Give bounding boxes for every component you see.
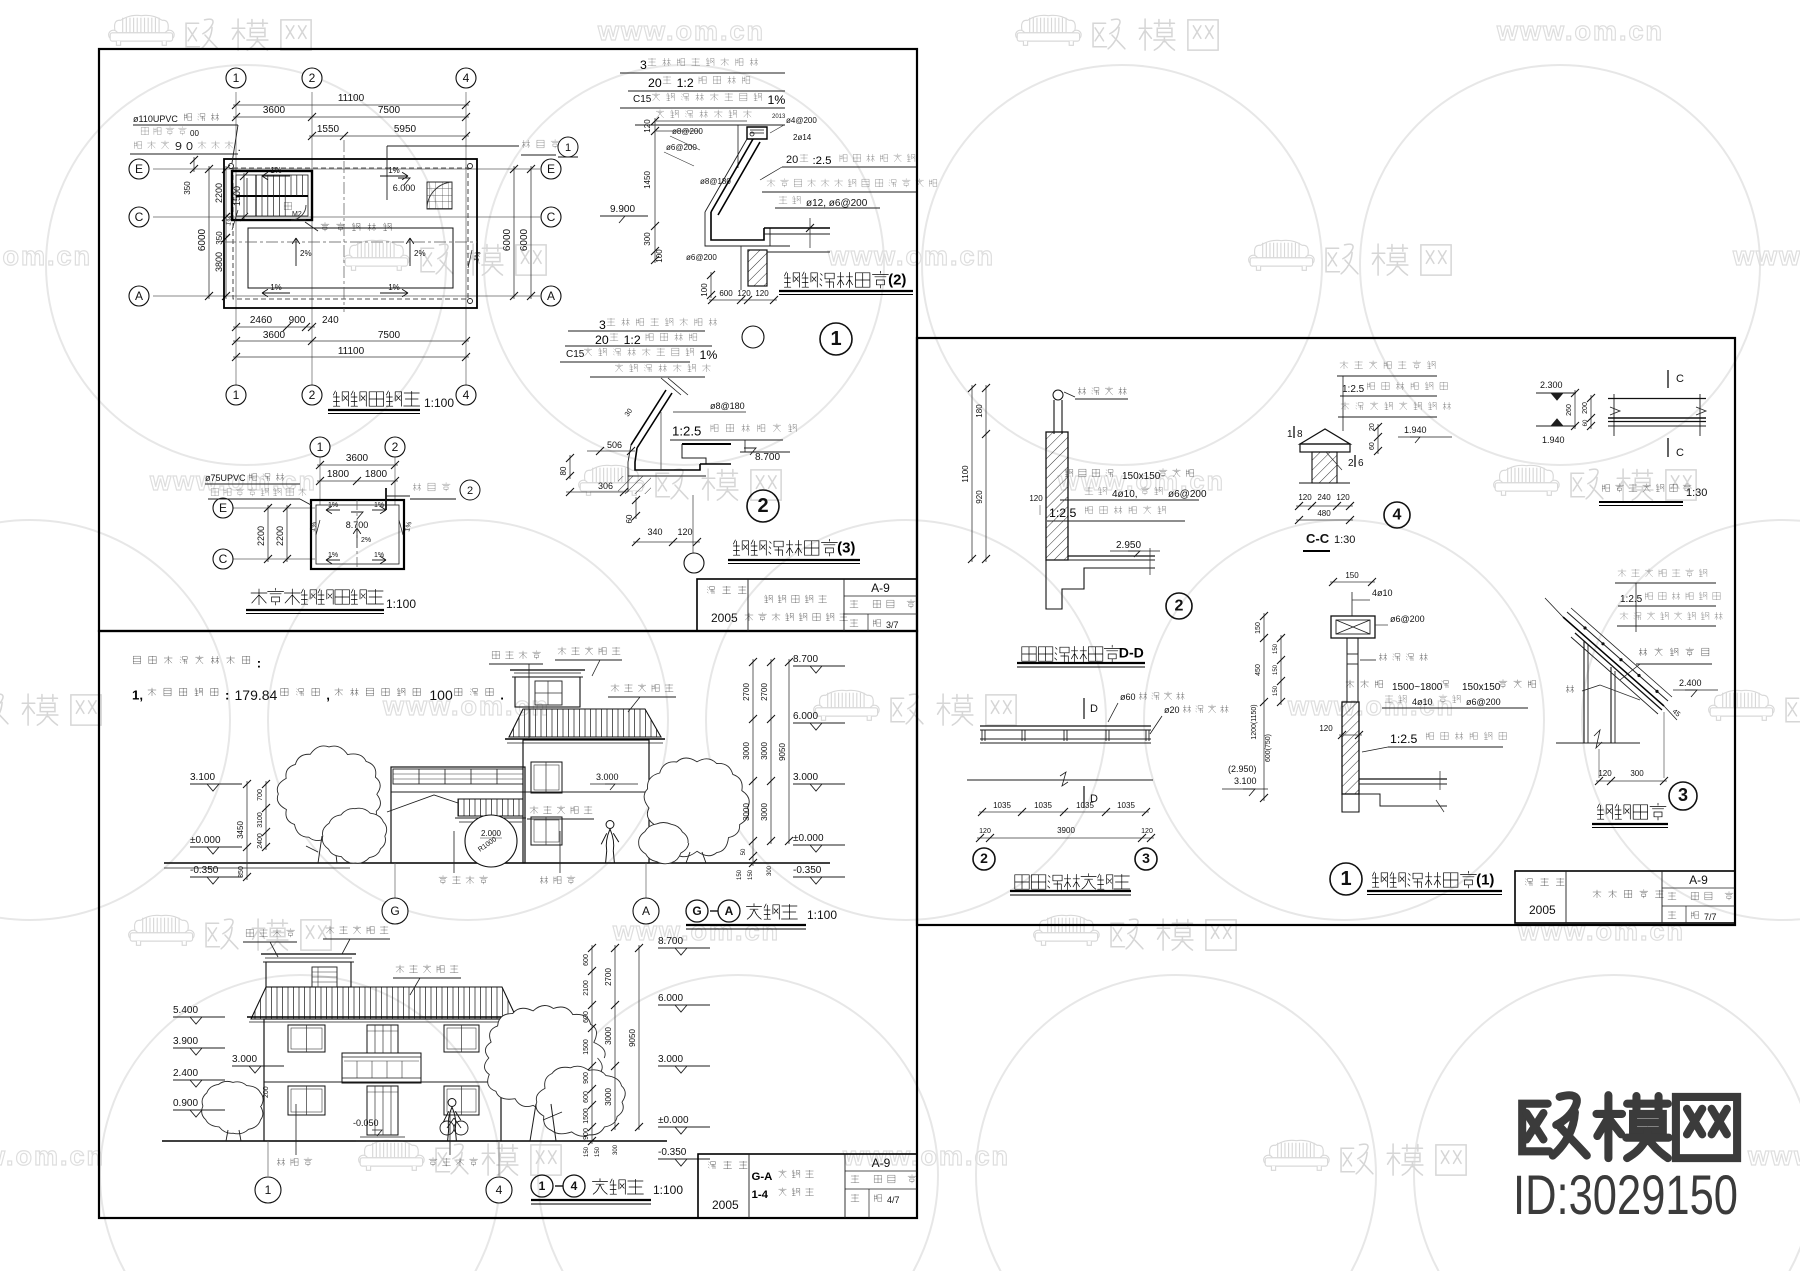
svg-text:100: 100 xyxy=(429,687,453,703)
svg-text:120: 120 xyxy=(1319,724,1333,733)
title 楼梯间屋面平面图 xyxy=(251,588,384,605)
svg-text:1%: 1% xyxy=(700,348,718,362)
svg-text:1: 1 xyxy=(1340,868,1351,890)
svg-text:ø6@200: ø6@200 xyxy=(1390,614,1425,624)
svg-text:E: E xyxy=(547,162,555,176)
svg-text:150: 150 xyxy=(1273,643,1279,654)
title 1-4 立面图 xyxy=(531,1175,553,1197)
svg-text:2ø14: 2ø14 xyxy=(793,133,812,142)
svg-text:.: . xyxy=(500,688,504,703)
svg-text:1%: 1% xyxy=(270,166,282,175)
svg-text:2460: 2460 xyxy=(250,315,273,326)
svg-text:www.om.cn: www.om.cn xyxy=(827,241,995,271)
svg-text:2013: 2013 xyxy=(772,114,786,120)
svg-text:300: 300 xyxy=(613,1144,619,1155)
svg-text:C15: C15 xyxy=(633,94,652,105)
svg-text:8.700: 8.700 xyxy=(658,936,683,947)
svg-text:A: A xyxy=(642,904,650,918)
svg-text:9050: 9050 xyxy=(778,743,787,761)
svg-text:120: 120 xyxy=(979,828,991,835)
svg-text:2%: 2% xyxy=(361,537,371,544)
svg-text:1: 1 xyxy=(830,328,841,350)
svg-text:4/7: 4/7 xyxy=(887,1195,900,1205)
svg-text:120: 120 xyxy=(1298,493,1312,502)
svg-text:2: 2 xyxy=(1348,458,1354,469)
svg-text:6.000: 6.000 xyxy=(658,993,683,1004)
svg-text:2005: 2005 xyxy=(711,611,738,625)
svg-text:5950: 5950 xyxy=(394,124,417,135)
svg-text:ID:3029150: ID:3029150 xyxy=(1513,1163,1738,1226)
svg-text:3: 3 xyxy=(1142,850,1150,866)
svg-text:1:100: 1:100 xyxy=(653,1183,683,1197)
svg-text:1:2.5: 1:2.5 xyxy=(672,424,701,439)
svg-text:6000: 6000 xyxy=(502,228,513,251)
svg-text:G: G xyxy=(692,904,701,918)
svg-text:1450: 1450 xyxy=(643,171,652,189)
svg-text:1:2: 1:2 xyxy=(677,76,694,90)
svg-text:ø8@180: ø8@180 xyxy=(710,401,745,411)
svg-text:2: 2 xyxy=(467,485,473,497)
svg-text:2.400: 2.400 xyxy=(1679,678,1702,688)
svg-text:3600: 3600 xyxy=(263,105,286,116)
title G-A 立面图 xyxy=(686,900,708,922)
svg-text:200: 200 xyxy=(1582,402,1589,414)
svg-text:700: 700 xyxy=(257,789,264,801)
svg-text:340: 340 xyxy=(647,527,662,537)
svg-text:www.om.cn: www.om.cn xyxy=(842,1141,1010,1171)
svg-text:350: 350 xyxy=(238,866,245,878)
svg-text:1800: 1800 xyxy=(365,469,388,480)
svg-text:1: 1 xyxy=(317,440,324,454)
svg-text:A-9: A-9 xyxy=(872,1156,891,1170)
svg-text:1035: 1035 xyxy=(1034,801,1052,810)
svg-text:2400: 2400 xyxy=(257,833,264,849)
svg-text:2%: 2% xyxy=(300,249,312,258)
svg-text:6000: 6000 xyxy=(519,228,530,251)
svg-text:4ø10,: 4ø10, xyxy=(1112,489,1138,500)
svg-text:.: . xyxy=(238,142,241,154)
title 阳台栏板大样D-D xyxy=(1022,644,1144,662)
svg-text:±0.000: ±0.000 xyxy=(793,833,824,844)
svg-text:www.om.cn: www.om.cn xyxy=(597,16,765,46)
svg-text:3000: 3000 xyxy=(604,1088,613,1106)
svg-text:2: 2 xyxy=(392,440,399,454)
svg-text:９０: ９０ xyxy=(173,141,195,153)
svg-text:2200: 2200 xyxy=(214,183,224,203)
svg-text:20: 20 xyxy=(595,333,609,347)
svg-text:9.900: 9.900 xyxy=(610,204,635,215)
svg-text:1:2.5: 1:2.5 xyxy=(1620,594,1643,605)
svg-text:6: 6 xyxy=(1358,458,1364,469)
svg-text:ø60: ø60 xyxy=(1120,692,1136,702)
svg-text:3600: 3600 xyxy=(263,330,286,341)
svg-text:A-9: A-9 xyxy=(1689,873,1708,887)
svg-text:4ø10: 4ø10 xyxy=(1372,588,1393,598)
svg-text:D-D: D-D xyxy=(1119,644,1144,660)
svg-text:3000: 3000 xyxy=(604,1027,613,1045)
detail 屋面栏板大样(2) xyxy=(640,58,758,72)
svg-text:ø20: ø20 xyxy=(1164,705,1180,715)
svg-text:1:100: 1:100 xyxy=(386,597,416,611)
svg-text:ø6@200: ø6@200 xyxy=(1466,697,1501,707)
svg-text:350: 350 xyxy=(215,231,224,245)
svg-text:120: 120 xyxy=(677,527,692,537)
detail 屋檐大样 xyxy=(1618,569,1707,577)
svg-text:3.000: 3.000 xyxy=(793,772,818,783)
svg-text:(1): (1) xyxy=(1476,871,1494,888)
svg-text:-0.350: -0.350 xyxy=(190,865,219,876)
svg-text:4: 4 xyxy=(463,388,470,402)
svg-text:1%: 1% xyxy=(374,552,384,559)
svg-text:480: 480 xyxy=(1317,509,1331,518)
svg-text:120: 120 xyxy=(737,289,751,298)
title block panel 1 xyxy=(697,579,917,631)
svg-text:6000: 6000 xyxy=(197,228,208,251)
svg-text:7/7: 7/7 xyxy=(1704,912,1717,922)
svg-text:260: 260 xyxy=(1566,404,1573,416)
svg-text:6.000: 6.000 xyxy=(393,183,416,193)
label 砖砌门槛高 xyxy=(305,222,318,231)
svg-text:5.400: 5.400 xyxy=(173,1005,198,1016)
svg-text:3900: 3900 xyxy=(1057,826,1075,835)
svg-text:1%: 1% xyxy=(374,502,384,509)
svg-text:3: 3 xyxy=(599,318,606,332)
svg-text:G-A: G-A xyxy=(752,1171,773,1183)
svg-text:8: 8 xyxy=(1297,429,1303,440)
svg-text:3000: 3000 xyxy=(760,803,769,821)
svg-text:300: 300 xyxy=(1630,769,1644,778)
svg-text:A-9: A-9 xyxy=(871,581,890,595)
svg-text:(2): (2) xyxy=(888,271,906,288)
svg-text:3: 3 xyxy=(1678,785,1688,805)
svg-text:150: 150 xyxy=(1273,685,1279,696)
svg-text:1: 1 xyxy=(265,1183,272,1197)
svg-text:150x150: 150x150 xyxy=(1122,471,1161,482)
svg-text::: : xyxy=(225,688,229,703)
svg-text:4ø10: 4ø10 xyxy=(1412,697,1433,707)
svg-text:2: 2 xyxy=(309,71,316,85)
svg-text:2700: 2700 xyxy=(742,683,751,701)
svg-text:506: 506 xyxy=(607,440,622,450)
svg-text:9050: 9050 xyxy=(628,1029,637,1047)
svg-text:www.om.cn: www.om.cn xyxy=(1517,916,1685,946)
svg-text:3800: 3800 xyxy=(214,252,224,272)
svg-text:3000: 3000 xyxy=(760,742,769,760)
svg-text:4: 4 xyxy=(571,1179,578,1193)
svg-text:150x150: 150x150 xyxy=(1462,682,1501,693)
svg-text:120: 120 xyxy=(643,119,652,133)
svg-text::2.5: :2.5 xyxy=(813,155,832,167)
economic index text xyxy=(134,656,262,671)
svg-text:3.000: 3.000 xyxy=(658,1054,683,1065)
svg-text:www.om.cn: www.om.cn xyxy=(1732,241,1800,271)
svg-text:E: E xyxy=(219,501,227,515)
svg-text:A: A xyxy=(725,904,734,918)
svg-text:3100: 3100 xyxy=(257,812,264,828)
svg-text:3.000: 3.000 xyxy=(596,772,619,782)
svg-text:3.100: 3.100 xyxy=(1234,776,1257,786)
svg-text:240: 240 xyxy=(1317,493,1331,502)
svg-text:3600: 3600 xyxy=(346,453,369,464)
stair roof plan 楼梯间屋面平面图 xyxy=(319,457,321,505)
svg-text:1%: 1% xyxy=(328,552,338,559)
svg-text:www.om.cn: www.om.cn xyxy=(1496,16,1664,46)
svg-text:C15: C15 xyxy=(566,349,585,360)
svg-text:4: 4 xyxy=(1393,507,1402,524)
svg-text:-0.050: -0.050 xyxy=(353,1118,379,1128)
svg-text:1:100: 1:100 xyxy=(807,908,837,922)
svg-text:3000: 3000 xyxy=(742,803,751,821)
detail 阳台栏板大样D-D xyxy=(1053,390,1063,400)
finish labels elevation 1-4 xyxy=(246,929,294,937)
svg-text:3000: 3000 xyxy=(742,742,751,760)
svg-text:C: C xyxy=(1676,373,1684,385)
svg-text:150: 150 xyxy=(584,1146,590,1157)
svg-text:1035: 1035 xyxy=(993,801,1011,810)
svg-text:C: C xyxy=(135,210,144,224)
svg-text:2200: 2200 xyxy=(275,526,285,546)
svg-text:3.100: 3.100 xyxy=(190,772,215,783)
svg-text:600: 600 xyxy=(583,954,590,966)
svg-text:6.000: 6.000 xyxy=(793,711,818,722)
svg-text:C: C xyxy=(1676,447,1684,459)
svg-text:ø8@200: ø8@200 xyxy=(672,127,703,136)
svg-text:2: 2 xyxy=(757,495,768,517)
svg-text:8.700: 8.700 xyxy=(793,654,818,665)
svg-text:450: 450 xyxy=(1255,664,1262,676)
svg-text:3/7: 3/7 xyxy=(886,620,899,630)
elevation 1-4 立面图 xyxy=(162,1140,667,1142)
svg-text:,: , xyxy=(326,688,330,703)
svg-text:C: C xyxy=(547,210,556,224)
svg-text:1%: 1% xyxy=(270,283,282,292)
svg-text:1%: 1% xyxy=(328,502,338,509)
svg-text:ø8@180: ø8@180 xyxy=(700,177,731,186)
svg-text:1:2: 1:2 xyxy=(624,333,641,347)
panel 1 border (roof plans + parapet details) xyxy=(99,49,917,631)
svg-text:±0.000: ±0.000 xyxy=(190,835,221,846)
elevation G-A 立面图 xyxy=(164,862,830,864)
svg-text:2005: 2005 xyxy=(1529,903,1556,917)
svg-text:600: 600 xyxy=(719,289,733,298)
svg-text:120: 120 xyxy=(1141,828,1153,835)
svg-text:ø6@200: ø6@200 xyxy=(1168,489,1207,500)
svg-text:8.700: 8.700 xyxy=(755,452,780,463)
svg-text:M2: M2 xyxy=(292,211,302,218)
svg-text:600: 600 xyxy=(583,1091,590,1103)
svg-text:2100: 2100 xyxy=(583,980,590,996)
svg-text:2%: 2% xyxy=(414,249,426,258)
svg-text:1%: 1% xyxy=(388,283,400,292)
svg-text:240: 240 xyxy=(322,315,339,326)
svg-text:900: 900 xyxy=(289,315,306,326)
svg-text:120: 120 xyxy=(1336,493,1350,502)
svg-text:120: 120 xyxy=(1598,769,1612,778)
svg-text:900: 900 xyxy=(583,1128,590,1140)
svg-text:7500: 7500 xyxy=(378,330,401,341)
svg-text:100: 100 xyxy=(655,249,664,263)
svg-text:1:2.5: 1:2.5 xyxy=(1390,732,1418,746)
svg-text:150: 150 xyxy=(1255,622,1262,634)
title 屋檐大样 xyxy=(1597,803,1666,820)
watermark tiles xyxy=(109,15,175,45)
svg-text:900: 900 xyxy=(583,1072,590,1084)
panel 2 border (elevations) xyxy=(99,631,917,1218)
svg-text:3.900: 3.900 xyxy=(173,1036,198,1047)
trees elevation 1-4 xyxy=(202,1081,263,1133)
svg-text:1550: 1550 xyxy=(317,124,340,135)
svg-text:(3): (3) xyxy=(837,539,855,556)
svg-text:60: 60 xyxy=(1583,419,1589,426)
svg-text:1500: 1500 xyxy=(583,1108,590,1124)
svg-text:C-C: C-C xyxy=(1306,531,1330,546)
svg-text:00: 00 xyxy=(190,129,199,138)
svg-text:4: 4 xyxy=(496,1183,503,1197)
svg-text:A: A xyxy=(547,289,555,303)
svg-text:150: 150 xyxy=(595,1146,601,1157)
svg-text:2.300: 2.300 xyxy=(1540,380,1563,390)
svg-text:ø6@200: ø6@200 xyxy=(666,143,697,152)
svg-text:www.om.cn: www.om.cn xyxy=(1747,1141,1800,1171)
title 屋面栏板大样(3) xyxy=(733,539,855,556)
svg-text:-0.350: -0.350 xyxy=(658,1147,687,1158)
title 装饰墙立面大样 xyxy=(1602,484,1691,492)
svg-text:1:100: 1:100 xyxy=(424,396,454,410)
svg-text::: : xyxy=(257,656,261,671)
panel 3 border (node details) xyxy=(917,338,1735,925)
svg-text:1500~1800: 1500~1800 xyxy=(1392,682,1443,693)
svg-text:1: 1 xyxy=(233,71,240,85)
svg-text:A: A xyxy=(135,289,143,303)
svg-text:2: 2 xyxy=(980,850,988,866)
svg-text:4: 4 xyxy=(463,71,470,85)
svg-text:G: G xyxy=(390,904,399,918)
svg-text:www.om.cn: www.om.cn xyxy=(0,1141,105,1171)
detail C-C xyxy=(1340,361,1435,369)
svg-text:-0.350: -0.350 xyxy=(793,865,822,876)
svg-text:1:30: 1:30 xyxy=(1686,487,1707,499)
svg-text:1500: 1500 xyxy=(583,1039,590,1055)
svg-text:ø4@200: ø4@200 xyxy=(786,116,817,125)
svg-text:600: 600 xyxy=(583,1011,590,1023)
svg-text:www.om.cn: www.om.cn xyxy=(0,241,92,271)
svg-text:120: 120 xyxy=(755,289,769,298)
svg-text:D: D xyxy=(1090,703,1098,715)
svg-text:920: 920 xyxy=(975,490,984,504)
svg-text:1.940: 1.940 xyxy=(1542,435,1565,445)
svg-text:2700: 2700 xyxy=(760,683,769,701)
svg-text:2.000: 2.000 xyxy=(481,829,502,838)
svg-text:300: 300 xyxy=(643,232,652,246)
svg-text:2: 2 xyxy=(309,388,316,402)
svg-text:1: 1 xyxy=(233,388,240,402)
svg-text:1100: 1100 xyxy=(961,465,970,483)
title 阳台栏板立面图 xyxy=(1015,874,1130,890)
title 屋面栏板大样(1) xyxy=(1372,871,1494,888)
svg-text:150: 150 xyxy=(1273,664,1279,675)
svg-text:1035: 1035 xyxy=(1076,801,1094,810)
finish labels elevation G-A xyxy=(492,651,540,659)
svg-text:11100: 11100 xyxy=(338,346,365,357)
leader 详建施1 xyxy=(386,146,388,200)
svg-text:3: 3 xyxy=(640,58,647,72)
svg-text:1%: 1% xyxy=(768,93,786,107)
big brand text 欧模网 ID:3029150 xyxy=(1522,1095,1737,1158)
svg-text:(2.950): (2.950) xyxy=(1228,764,1257,774)
svg-text:1: 1 xyxy=(565,142,571,154)
svg-text:100: 100 xyxy=(700,283,709,297)
svg-text:1800: 1800 xyxy=(327,469,350,480)
svg-text:0.900: 0.900 xyxy=(173,1098,198,1109)
svg-text:120: 120 xyxy=(1029,494,1043,503)
roof plan 屋面平面图 xyxy=(235,92,237,385)
svg-text:11100: 11100 xyxy=(338,93,365,104)
svg-text:2.950: 2.950 xyxy=(1116,540,1141,551)
svg-text:ø110UPVC: ø110UPVC xyxy=(133,114,178,124)
svg-text:150: 150 xyxy=(737,869,743,880)
svg-text:150: 150 xyxy=(748,869,754,880)
svg-text:1: 1 xyxy=(539,1179,546,1193)
svg-text:200: 200 xyxy=(263,1086,270,1098)
svg-text:1-4: 1-4 xyxy=(752,1189,769,1201)
svg-text:ø12, ø6@200: ø12, ø6@200 xyxy=(806,198,868,209)
svg-text:1%: 1% xyxy=(388,166,400,175)
svg-text:2: 2 xyxy=(1175,598,1184,615)
svg-text:1:2.5: 1:2.5 xyxy=(1342,384,1365,395)
svg-text:1200(1150): 1200(1150) xyxy=(1251,704,1258,739)
svg-text:E: E xyxy=(135,162,143,176)
svg-text:7500: 7500 xyxy=(378,105,401,116)
svg-text:ø6@200: ø6@200 xyxy=(686,253,717,262)
svg-text:20: 20 xyxy=(648,76,662,90)
svg-text:300: 300 xyxy=(767,865,773,876)
trees elevation G-A xyxy=(277,746,380,841)
svg-text:ø75UPVC: ø75UPVC xyxy=(205,473,246,483)
svg-text:1: 1 xyxy=(1287,429,1293,440)
svg-text:2005: 2005 xyxy=(712,1198,739,1212)
svg-text:1.940: 1.940 xyxy=(1404,425,1427,435)
svg-text:20: 20 xyxy=(786,154,798,166)
svg-text:2.400: 2.400 xyxy=(173,1068,198,1079)
svg-text:3.000: 3.000 xyxy=(232,1054,257,1065)
svg-text:350: 350 xyxy=(183,181,192,195)
title 屋面栏板大样(2) xyxy=(784,271,906,288)
svg-text:80: 80 xyxy=(559,466,568,475)
svg-text:1:30: 1:30 xyxy=(1334,534,1355,546)
detail 屋面栏板大样(3) xyxy=(599,318,717,332)
svg-text:1035: 1035 xyxy=(1117,801,1135,810)
svg-text:60: 60 xyxy=(1369,442,1376,450)
svg-text:1:2.5: 1:2.5 xyxy=(1049,506,1077,520)
roof hatch square xyxy=(427,182,452,209)
stair shaft on roof plan xyxy=(232,171,312,220)
svg-text:C: C xyxy=(219,552,228,566)
svg-text:3450: 3450 xyxy=(236,821,245,839)
title 屋面平面图 xyxy=(333,391,419,406)
detail 阳台栏板立面图 xyxy=(980,725,1151,727)
svg-text:306: 306 xyxy=(598,481,613,491)
svg-text:150: 150 xyxy=(1345,571,1359,580)
svg-text:1,: 1, xyxy=(132,688,143,703)
svg-text:180: 180 xyxy=(975,404,984,418)
svg-text:2200: 2200 xyxy=(256,526,266,546)
svg-text:2700: 2700 xyxy=(604,968,613,986)
svg-text:600(750): 600(750) xyxy=(1265,734,1272,762)
svg-text:±0.000: ±0.000 xyxy=(658,1115,689,1126)
svg-text:50: 50 xyxy=(741,848,747,855)
svg-text:179.84: 179.84 xyxy=(235,687,278,703)
